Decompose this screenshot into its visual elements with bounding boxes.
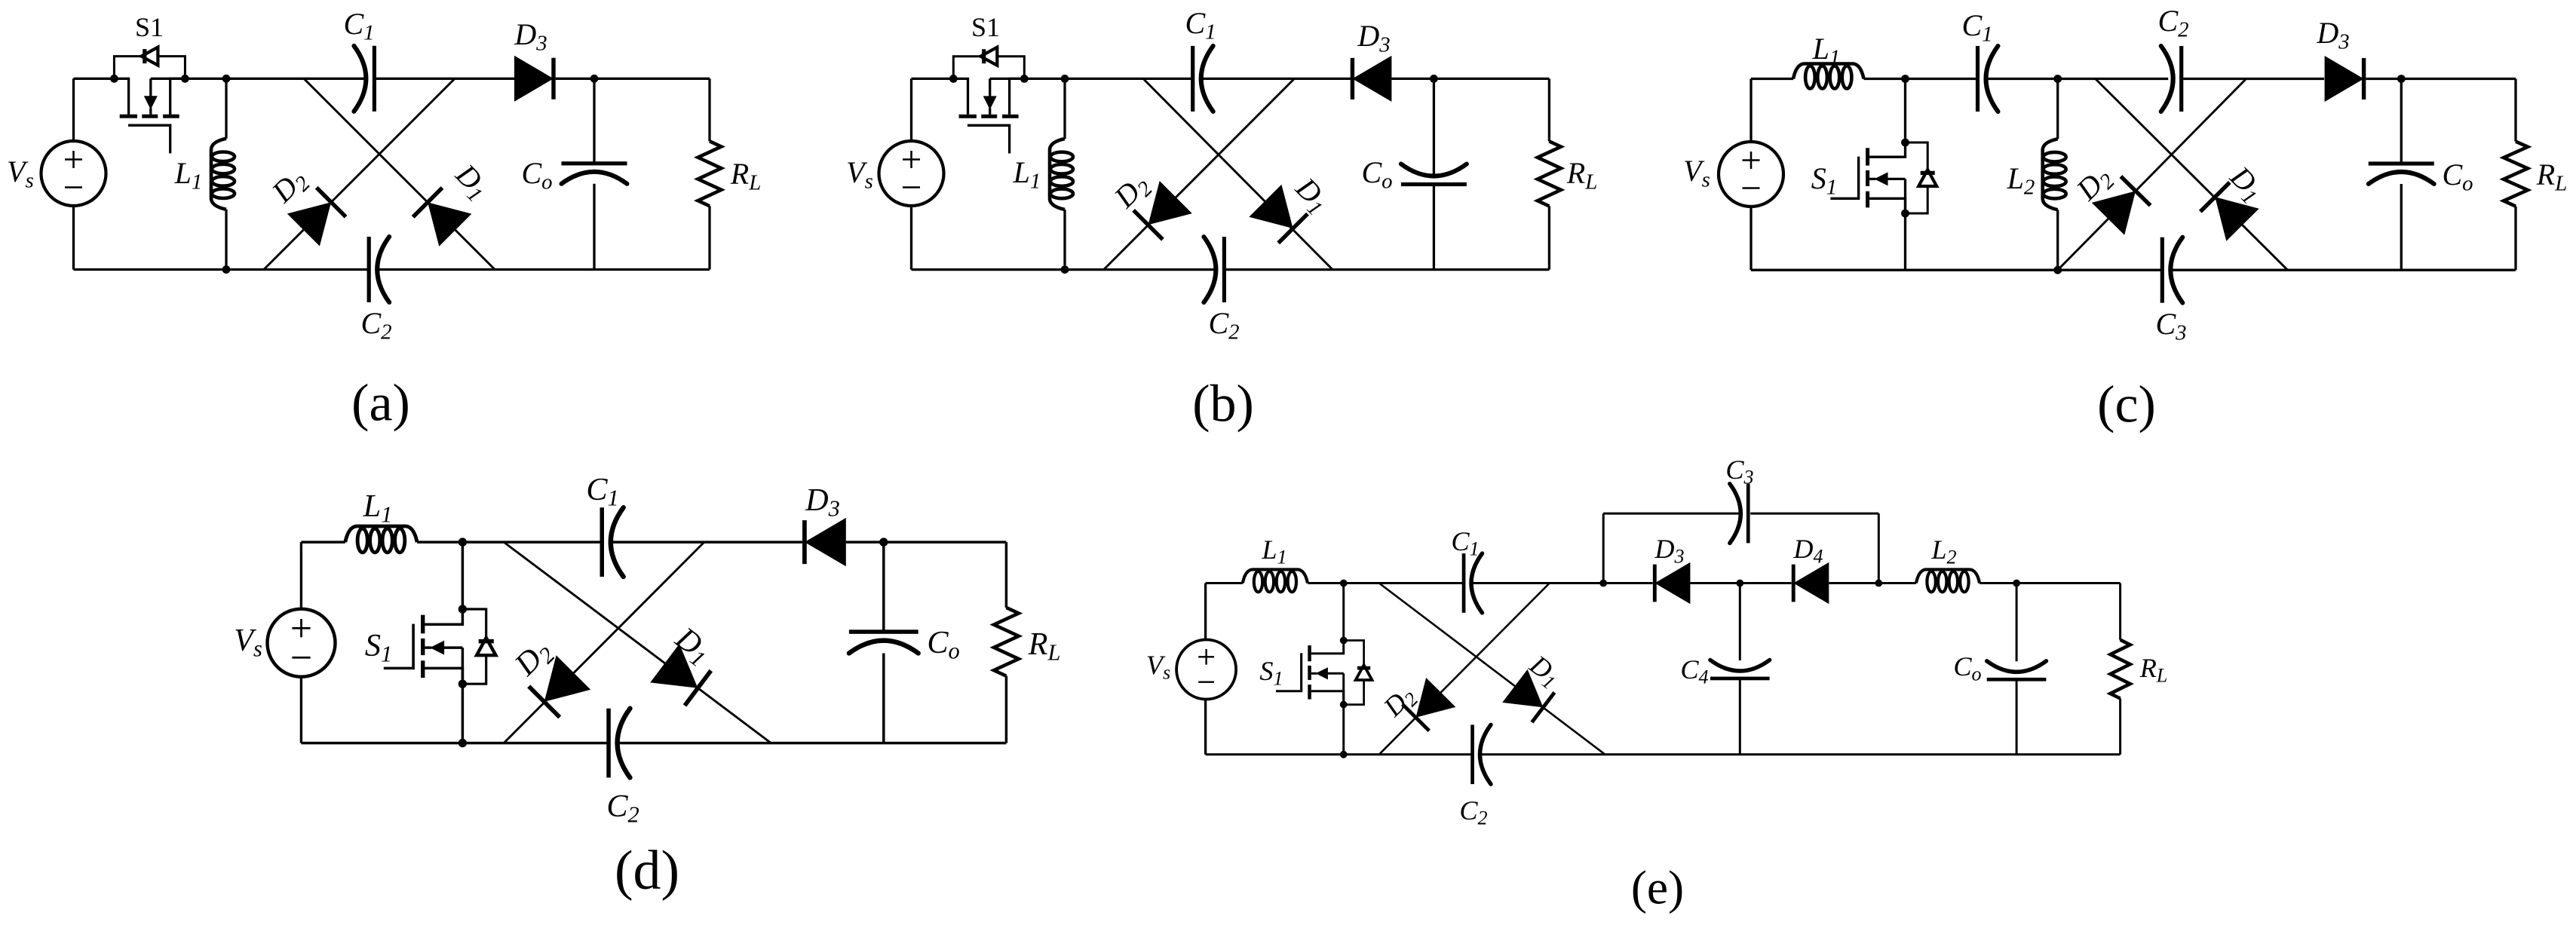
wire: node1 down to S1 <box>1904 79 1906 143</box>
wire: node2 down to L2 <box>2056 79 2059 139</box>
wire: top-left to L1 <box>1751 78 1793 80</box>
wire: C1 to T2 and node A <box>1473 582 1603 584</box>
wire: Co to bottom rail <box>1433 185 1435 270</box>
node: S1 drain junction <box>1901 75 1909 83</box>
capacitor C1 <box>1191 46 1194 112</box>
diode D1 on diagonal (pointing down-right) <box>1502 669 1543 707</box>
top rail: node C to RL corner <box>2016 582 2121 584</box>
wire: S1 to bottom rail <box>462 684 464 743</box>
node: output junction <box>1430 75 1438 83</box>
svg-text:(e): (e) <box>1631 862 1684 914</box>
node B: C3 branch right <box>1875 580 1882 587</box>
wire: Co to bottom rail <box>882 654 885 743</box>
wire: D3 to output node <box>846 541 884 543</box>
wire: output node down to Co <box>882 542 885 632</box>
diode D3 (pointing left) <box>805 518 846 566</box>
bottom rail: C2 to right edge <box>1482 753 2121 755</box>
wire: T2 rail to D3 <box>704 541 802 543</box>
voltage source Vs <box>41 141 106 206</box>
resistor RL <box>1538 141 1561 206</box>
wire: top-left rail to S1 <box>912 78 954 80</box>
C3 bridge: left horizontal <box>1603 513 1740 515</box>
voltage source Vs <box>268 609 336 677</box>
wire: mid node to D4 <box>1740 582 1791 584</box>
C3 bridge: left riser <box>1602 513 1605 583</box>
wire: output node down to Co <box>593 78 595 164</box>
inductor L1 (horizontal) <box>1793 64 1864 79</box>
wire crossing X: diagonal T2 to B1 (carries D2) <box>504 542 704 743</box>
wire crossing X: diagonal T1 to B2 (carries D1) <box>304 78 495 269</box>
wire: S1 to bottom rail <box>1342 705 1345 755</box>
wire: right edge down to RL <box>2119 583 2121 640</box>
inductor L1 (horizontal) <box>345 526 417 542</box>
capacitor Co (arc on top) <box>1401 182 1467 186</box>
wire: C1 to D3 <box>376 78 515 80</box>
capacitor C1 <box>1462 553 1466 613</box>
wire: top rail node to C1 <box>226 78 364 80</box>
bottom rail: C2 to right edge <box>1226 268 1549 271</box>
wire: node1 to C1 <box>462 541 602 543</box>
capacitor C1 <box>1976 46 1980 112</box>
capacitor Co <box>562 161 627 165</box>
wire: C1 to D3 <box>1203 78 1354 80</box>
wire: L2 to bottom node B1 <box>2056 210 2059 270</box>
node: S1 bottom junction <box>458 739 467 747</box>
capacitor C4 (arc on top) <box>1710 677 1770 681</box>
wire: node A to D3 <box>1603 582 1652 584</box>
wire: RL to bottom rail <box>2514 207 2516 271</box>
node: output junction <box>2397 75 2406 83</box>
wire: output node down to Co <box>1433 78 1435 176</box>
wire crossing X: diagonal T2 to B1 (carries D2) <box>2058 79 2246 271</box>
wire: Vs to bottom rail <box>72 206 75 270</box>
wire: S1 to node L1-top <box>185 78 226 80</box>
node: L1 top junction <box>1061 75 1069 83</box>
transistor S1 (vertical MOSFET with body diode) <box>1901 139 1909 147</box>
node: output junction <box>590 75 599 83</box>
wire: D3 to output node <box>556 78 594 80</box>
wire: L1 to node1 <box>417 541 462 543</box>
inductor L2 (vertical) <box>2043 139 2058 210</box>
diode D2 on diagonal (pointing down-left) <box>1148 181 1192 225</box>
resistor RL <box>2111 640 2130 699</box>
diode D3 (pointing left) <box>1654 562 1690 604</box>
bottom rail: left segment <box>1751 269 2162 271</box>
wire crossing X: diagonal T1 to B2 (carries D1, slope 0.75) <box>504 542 771 743</box>
capacitor Co <box>2369 161 2434 165</box>
capacitor C2 <box>367 237 371 302</box>
wire: mid node down to C4 <box>1739 583 1741 661</box>
svg-text:(d): (d) <box>615 839 679 901</box>
diode D1 on diagonal (pointing down-right) <box>650 644 698 688</box>
svg-text:S1: S1 <box>135 12 164 42</box>
wire: node B to L2 <box>1878 582 1916 584</box>
capacitor C2 <box>1470 724 1474 784</box>
wire: node to inductor L1 <box>225 78 227 139</box>
wire: node1 down to S1 <box>1342 583 1345 641</box>
node: S1 bottom junction <box>1340 751 1348 758</box>
node A: C3 branch left <box>1599 580 1607 587</box>
diode D2 on diagonal (pointing down-left) <box>544 655 591 702</box>
wire: C4 to bottom rail <box>1739 678 1741 755</box>
wire: Co to bottom rail <box>2400 184 2403 270</box>
wire crossing X: diagonal T2 to B1 (carries D2) <box>1379 583 1550 755</box>
wire: Co to bottom rail <box>2016 679 2018 755</box>
bottom rail: left segment to C2 <box>912 268 1216 271</box>
wire: node1 to C1 <box>1344 582 1464 584</box>
top rail: output node to RL corner <box>2401 78 2516 80</box>
wire: right edge down to RL <box>1548 78 1550 141</box>
wire: top-left to L1 <box>301 541 345 543</box>
node: S1 drain junction <box>458 538 467 546</box>
resistor RL <box>698 141 722 206</box>
top rail: output node to RL corner <box>1434 78 1549 80</box>
wire: node to L1 <box>1063 78 1066 139</box>
wire: C2 to D3 <box>2183 78 2324 80</box>
wire: RL to bottom rail <box>1005 676 1007 743</box>
wire: L1 to node1 <box>1864 78 1906 80</box>
capacitor C1 <box>373 46 376 112</box>
top rail: output node to RL corner <box>884 541 1007 543</box>
capacitor C2 (top of X cell) <box>2179 46 2183 112</box>
node: L1 top junction <box>222 75 231 83</box>
wire: RL to bottom rail <box>708 206 710 269</box>
transistor S1 (MOSFET with body diode) <box>110 75 118 83</box>
diode D2 on diagonal <box>287 202 331 246</box>
resistor RL <box>994 608 1019 676</box>
wire crossing X: diagonal T1 to B2 (carries D1) <box>2096 79 2288 271</box>
voltage source Vs <box>879 141 944 206</box>
wire: S1 to node L1-top <box>1024 78 1065 80</box>
svg-text:(c): (c) <box>2097 376 2156 434</box>
voltage source Vs <box>1176 640 1236 700</box>
node: B1 junction <box>2053 266 2062 274</box>
diode D3 <box>2325 56 2364 102</box>
capacitor C1 <box>600 507 605 577</box>
diode D1 on diagonal (pointing down-right) <box>1249 185 1293 228</box>
diode D4 (pointing left) <box>1793 562 1829 604</box>
node C: output junction <box>2013 580 2020 587</box>
wire: D3 to output node <box>2366 78 2401 80</box>
wire: node1 down to S1 <box>462 542 464 609</box>
wire: C1 to node2 <box>1988 78 2058 80</box>
inductor L1 <box>211 139 226 210</box>
C3 bridge: right riser <box>1878 513 1880 583</box>
wire: D3 to output node <box>1391 78 1434 80</box>
transistor S1 (vertical MOSFET with body diode) <box>1340 637 1348 645</box>
node: S1 drain junction <box>1340 580 1348 587</box>
capacitor C3 (bottom) <box>2160 237 2164 303</box>
wire: L1 to bottom node <box>1063 210 1066 270</box>
wire: node2 to C2 (top rail) <box>2058 78 2169 80</box>
wire: RL to bottom rail <box>1548 206 1550 269</box>
wire crossing X: diagonal T2 to B1 (carries D2) <box>1104 78 1295 269</box>
wire: C1 to T2 <box>612 541 704 543</box>
wire: Co to bottom rail <box>593 184 595 270</box>
wire: right edge down to RL <box>2514 79 2516 142</box>
capacitor C3 (on bridge) <box>1746 484 1750 544</box>
wire: top-left to L1 <box>1206 582 1243 584</box>
wire: D4 to node B <box>1829 582 1878 584</box>
capacitor C2 <box>606 709 611 778</box>
inductor L1 (horizontal) <box>1243 569 1308 583</box>
svg-text:S1: S1 <box>971 12 1000 42</box>
bottom rail: C3 to right edge <box>2173 269 2516 271</box>
node: output junction <box>879 538 888 546</box>
wire: D3 to mid node <box>1690 582 1740 584</box>
wire: L2 to node C <box>1980 582 2016 584</box>
node: L2 top junction <box>2053 75 2062 83</box>
transistor S1 (vertical MOSFET with body diode) <box>458 605 467 613</box>
diode D3 (pointing left) <box>1352 56 1391 102</box>
capacitor C2 <box>1222 237 1226 302</box>
wire: Vs to top rail <box>72 78 75 141</box>
capacitor Co <box>849 629 918 634</box>
wire: L1 to node1 <box>1308 582 1344 584</box>
svg-text:(a): (a) <box>351 375 410 433</box>
diode D2 on diagonal (pointing down-left) <box>1416 678 1456 718</box>
wire crossing X: diagonal T1 to B2 (carries D1, slope 0.76) <box>1379 583 1605 755</box>
wire: node C down to Co <box>2016 583 2018 662</box>
diode D2 on diagonal <box>2092 191 2136 234</box>
wire: RL to bottom rail <box>2119 699 2121 755</box>
wire crossing X: diagonal T2 to B1 (carries D2) <box>264 78 455 269</box>
capacitor Co (arc on top) <box>1987 678 2047 681</box>
wire: top rail node to C1 <box>1065 78 1193 80</box>
diode D1 on diagonal <box>428 202 471 246</box>
diode D1 on diagonal <box>2215 197 2259 240</box>
transistor S1 (MOSFET with body diode) <box>949 75 958 83</box>
diode D3 <box>514 56 554 102</box>
bottom rail: left segment to C2 <box>1206 753 1473 755</box>
node: L1 bottom junction <box>222 265 231 274</box>
wire: S1 to bottom rail <box>1904 213 1906 270</box>
bottom rail: C2 to right edge <box>620 742 1007 744</box>
wire crossing X: diagonal T1 to B2 (carries D1) <box>1143 78 1332 269</box>
wire: L1 to bottom node <box>225 210 227 270</box>
svg-text:(b): (b) <box>1192 375 1254 433</box>
inductor L1 <box>1050 139 1065 210</box>
top rail: output node to RL corner <box>594 78 710 80</box>
bottom rail: C2 to right edge <box>379 268 710 271</box>
bottom rail: left segment to C2 <box>301 742 609 744</box>
wire: right edge down to RL <box>708 78 710 141</box>
resistor RL <box>2504 142 2528 207</box>
wire: output node down to Co <box>2400 79 2403 164</box>
node: L1 bottom junction <box>1061 265 1069 274</box>
bottom rail: left segment to C2 <box>74 268 368 271</box>
voltage source Vs <box>1719 142 1783 207</box>
node: D3-D4 midpoint <box>1736 580 1743 587</box>
inductor L2 (horizontal) <box>1916 569 1980 583</box>
C3 bridge: right horizontal <box>1750 513 1878 515</box>
wire: right edge down to RL <box>1005 542 1007 608</box>
wire: top-left rail to S1 <box>74 78 115 80</box>
wire: node1 to C1 <box>1906 78 1978 80</box>
